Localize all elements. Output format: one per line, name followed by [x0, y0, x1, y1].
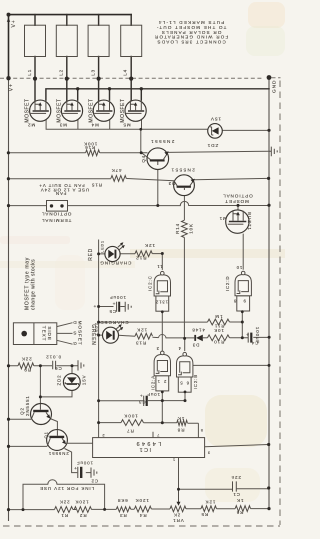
junction dot Q4 collector on fan line — [156, 204, 159, 207]
wire: M1 drain stub — [237, 206, 239, 212]
wire: IC2:C output drop — [161, 254, 163, 270]
dashed battery boundary line — [0, 77, 281, 79]
svg-text:LED1: LED1 — [101, 240, 105, 253]
svg-text:FAN TO SUIT V+: FAN TO SUIT V+ — [38, 183, 84, 188]
svg-text:+: + — [246, 332, 249, 337]
fan terminal block — [47, 201, 68, 212]
svg-text:V+: V+ — [11, 19, 17, 27]
transistor Q4 2N5551 — [141, 148, 168, 170]
svg-text:IC1: IC1 — [138, 446, 151, 452]
junction dot C3 line at LED feed — [97, 399, 100, 402]
junction dot IC2:A bottom — [161, 391, 164, 394]
resistor R16 100K — [86, 150, 100, 156]
svg-text:12K: 12K — [205, 500, 216, 505]
svg-text:+: + — [93, 303, 97, 308]
capacitor C3 10uF — [140, 393, 148, 406]
capacitor C4 100uF — [246, 332, 253, 342]
resistor R5 12K — [201, 506, 216, 512]
svg-text:MOSFET: MOSFET — [78, 321, 83, 346]
resistor R8 1K — [177, 420, 188, 425]
svg-text:SIDE: SIDE — [47, 326, 52, 341]
svg-text:M5: M5 — [123, 122, 131, 127]
wire: LED2 line to R13 — [99, 335, 159, 338]
wire: load L4 top stub — [130, 15, 132, 26]
wire: Q4 emitter line to rail ground — [168, 151, 269, 152]
svg-text:10: 10 — [236, 265, 242, 270]
svg-text:PUTS MARKED L1-L4: PUTS MARKED L1-L4 — [158, 20, 225, 25]
wire: LED panel vertical (RED/GREEN feed) — [98, 240, 100, 438]
wire: R7/R8 line — [99, 422, 199, 425]
junction dot IC2:B bottom — [184, 391, 187, 394]
svg-text:C2: C2 — [91, 478, 98, 483]
junction dot R15 at rail — [7, 177, 10, 180]
svg-text:ZD2: ZD2 — [56, 375, 61, 386]
svg-text:C5: C5 — [109, 309, 116, 314]
wire: IC2:B side pin to rail — [193, 364, 268, 366]
junction dot ZD1 line at rail — [267, 129, 270, 132]
svg-text:V+: V+ — [8, 83, 14, 91]
junction dot D3 line left — [183, 337, 186, 340]
wire: L2 to M3 drain — [66, 57, 68, 106]
svg-text:MOSFET: MOSFET — [88, 98, 94, 122]
wire: fan line left (rail to terminal) — [9, 205, 47, 207]
wire: IC1 right pin to rail — [205, 445, 269, 447]
capacitor C2 100uF — [74, 466, 83, 478]
svg-text:10uF: 10uF — [146, 392, 160, 397]
NAND gate IC2:A — [154, 351, 170, 391]
svg-text:C1: C1 — [232, 492, 239, 497]
junction dot R9 at rail — [7, 364, 10, 367]
resistor R7 100K — [121, 420, 143, 426]
resistor VR1 2K track — [170, 506, 186, 512]
svg-text:2: 2 — [101, 433, 104, 438]
svg-text:R6: R6 — [236, 510, 244, 515]
svg-text:R8: R8 — [177, 427, 185, 432]
wire: D3 to R10 — [203, 337, 208, 339]
svg-text:9: 9 — [243, 299, 246, 304]
dashed border bottom — [3, 525, 280, 527]
wire: top V+ bus — [9, 14, 132, 16]
junction dot M1 drain on fan line — [237, 204, 240, 207]
junction dot Q4 base — [140, 151, 143, 154]
diode D3 4148 — [194, 335, 203, 342]
capacitor C6 0.012 — [53, 361, 56, 370]
MOSFET M5 body — [125, 100, 146, 121]
wire: C3 line down to R7/R8 line — [161, 401, 163, 423]
junction dot LED1 anode — [97, 252, 100, 255]
wire: C4 to rail — [253, 336, 269, 338]
svg-text:R13: R13 — [135, 341, 146, 346]
svg-text:C6: C6 — [54, 366, 62, 371]
resistor R11 1M — [208, 319, 230, 325]
junction dot C5 tap — [97, 305, 100, 308]
junction dot VR1 wiper at C1 line — [177, 488, 180, 491]
svg-text:CHARGED: CHARGED — [99, 320, 128, 325]
junction dot C1 at rail — [267, 486, 270, 489]
wire: gate bus M2-M5 to ZD1 — [46, 114, 208, 130]
wire: R10 to C4 — [230, 337, 249, 339]
wire: load L3 top stub — [98, 15, 100, 26]
svg-text:CONNECT 3R5 LOADS: CONNECT 3R5 LOADS — [156, 39, 225, 44]
wire: M4 gate drop — [109, 114, 111, 130]
resistor R12 12K — [135, 251, 152, 257]
NAND gate IC2:D — [235, 271, 251, 311]
svg-text:Q2: Q2 — [19, 407, 24, 415]
wire: R8 corner into IC1 top — [197, 423, 199, 437]
wire: IC2:C to IC2:A output link — [161, 322, 163, 351]
svg-text:4148: 4148 — [192, 328, 205, 333]
wire: C2 to ground — [86, 472, 90, 474]
wire: Q1 base from rail — [9, 445, 48, 447]
VR1 2K wiper arrow — [178, 489, 180, 502]
wire: L3 to M4 drain — [98, 57, 100, 106]
NAND gate IC2:C — [154, 271, 170, 311]
load L2 box — [56, 25, 77, 56]
junction dot GND corner — [267, 75, 272, 80]
IC1 L4949 box — [93, 438, 205, 458]
svg-text:12K: 12K — [136, 328, 147, 333]
capacitor C1 22n — [233, 481, 237, 491]
svg-text:R11: R11 — [214, 323, 224, 328]
wire: M5 source stub — [140, 89, 142, 100]
svg-text:C3: C3 — [138, 399, 145, 404]
svg-text:12: 12 — [155, 300, 161, 305]
wire: Q3 emitter line to rail — [194, 178, 268, 179]
junction dot R16 at rail — [7, 151, 10, 154]
wire: M5 gate drop — [141, 114, 143, 130]
svg-text:TEXT: TEXT — [41, 326, 46, 342]
svg-text:M3: M3 — [59, 122, 67, 127]
svg-text:VR1: VR1 — [172, 518, 183, 523]
wire: C5 tap line — [99, 306, 114, 308]
junction dot M3 source on bus — [76, 87, 79, 90]
svg-text:MOSFET: MOSFET — [120, 98, 126, 122]
wire: bottom line V+ rail to GND rail — [9, 509, 270, 510]
junction dot M5 source on bus — [140, 87, 143, 90]
wire: 12V link bridge — [23, 480, 105, 510]
wire: load L1 top stub — [34, 15, 36, 26]
svg-text:0.012: 0.012 — [45, 354, 61, 359]
zener ZD2 15V — [63, 374, 80, 391]
svg-text:R16: R16 — [84, 145, 95, 150]
wire: M1 gate drop to IC2:D — [242, 234, 244, 270]
junction dot fan line at GND rail — [267, 204, 270, 207]
svg-text:+: + — [140, 393, 143, 398]
capacitor C5 100uF — [117, 302, 132, 312]
svg-text:2: 2 — [163, 379, 166, 384]
svg-text:2N5551: 2N5551 — [170, 168, 195, 173]
wire: R11 1M line — [99, 321, 243, 323]
wire: IC1 pin stub x153 — [152, 432, 154, 438]
svg-text:1K: 1K — [177, 416, 184, 421]
MOSFET M1 BUZ71 body — [226, 210, 249, 233]
svg-text:L2: L2 — [59, 69, 64, 76]
wire: IC2:C lower net to 1M line — [161, 312, 163, 322]
wire: M3 gate drop — [77, 114, 79, 130]
svg-text:Q4: Q4 — [141, 155, 146, 163]
wire: IC1 bottom pin to VR1 wiper — [178, 458, 180, 503]
svg-text:22K: 22K — [21, 357, 32, 362]
svg-text:R1: R1 — [61, 513, 69, 518]
wire: R9/C6 line from rail — [9, 365, 78, 367]
svg-text:1: 1 — [157, 379, 160, 384]
svg-text:Q3: Q3 — [168, 181, 176, 186]
svg-text:ZD1: ZD1 — [207, 143, 219, 148]
svg-text:L4949: L4949 — [134, 440, 161, 446]
wire: MOSFET source bus to GND rail — [46, 89, 269, 100]
svg-text:C4: C4 — [251, 341, 258, 346]
svg-text:11: 11 — [156, 264, 162, 269]
wire: right GND rail — [268, 78, 270, 509]
svg-text:R10: R10 — [213, 340, 224, 345]
svg-text:2N5551: 2N5551 — [48, 451, 69, 456]
svg-text:1: 1 — [172, 458, 175, 463]
junction dot V+ top corner — [7, 13, 11, 17]
svg-text:6K8: 6K8 — [117, 498, 128, 503]
svg-text:100uF: 100uF — [76, 461, 93, 466]
svg-text:R5: R5 — [201, 512, 209, 517]
wire: IC2:D output net vertical — [241, 312, 243, 338]
svg-text:IC2:A: IC2:A — [150, 375, 155, 390]
load L1 box — [25, 25, 46, 56]
wire: R16 line from V+ rail to Q4 base — [9, 152, 148, 154]
svg-text:RED: RED — [88, 248, 94, 261]
svg-text:M2: M2 — [27, 122, 35, 127]
junction dot R11 right — [241, 321, 244, 324]
junction dot Q3 emitter at rail — [267, 177, 270, 180]
resistor R2 120K — [74, 507, 91, 513]
V+ rail arrow tick — [7, 18, 10, 22]
scan tint: top right green patch — [246, 26, 285, 56]
wire: Q2 collector riser — [39, 366, 41, 404]
svg-text:TERMINAL: TERMINAL — [41, 218, 71, 223]
wire: R15 line from V+ rail to Q3 base — [9, 179, 175, 181]
svg-text:12K: 12K — [144, 243, 155, 248]
wire: L4 to M5 drain — [130, 57, 132, 106]
svg-text:100uF: 100uF — [109, 295, 126, 300]
svg-text:change with stocks: change with stocks — [31, 259, 37, 310]
resistor R13 12K — [135, 333, 153, 339]
ground symbol at GND rail — [269, 147, 277, 157]
svg-text:R3: R3 — [119, 513, 127, 518]
svg-text:L4: L4 — [123, 69, 128, 76]
junction dot L2 — [65, 77, 69, 81]
junction dot Q2 base at rail — [7, 418, 10, 421]
svg-text:OPTIONAL: OPTIONAL — [41, 212, 71, 217]
ground symbol right of C2 — [90, 468, 97, 478]
svg-text:L1: L1 — [27, 69, 32, 76]
svg-text:LINK FOR 12V USE: LINK FOR 12V USE — [39, 486, 94, 491]
svg-text:5: 5 — [200, 428, 203, 433]
resistor R14 10K (vertical) — [182, 220, 188, 237]
junction dot R7/R8 divider tap — [161, 421, 164, 424]
svg-text:4: 4 — [178, 346, 181, 351]
svg-text:G: G — [72, 341, 76, 346]
svg-text:22K: 22K — [59, 500, 70, 505]
transistor Q2 2N5551 — [31, 404, 52, 425]
svg-text:5: 5 — [179, 381, 182, 386]
svg-text:1K: 1K — [236, 498, 243, 503]
scan tint: top right peach patch — [248, 2, 285, 28]
svg-text:R2: R2 — [79, 513, 87, 518]
wire: Q1 emitter down to C2 — [65, 449, 78, 473]
svg-text:D3: D3 — [192, 343, 199, 348]
svg-text:10K: 10K — [188, 223, 193, 234]
junction dot LED2 anode — [97, 334, 100, 337]
wire: IC2:B output drop — [184, 339, 186, 352]
scan tint: beige band right — [130, 249, 285, 258]
junction dot M4 source on bus — [108, 87, 111, 90]
junction dot IC2:D inputs — [241, 310, 244, 313]
wire: Q2 emitter to Q1 collector — [49, 418, 58, 430]
junction dot IC1 right pin at rail — [267, 443, 270, 446]
svg-text:2N5551: 2N5551 — [25, 395, 30, 416]
svg-text:LED2: LED2 — [95, 322, 99, 335]
svg-text:IC2:D: IC2:D — [225, 276, 230, 292]
junction dot bottom line at GND rail — [267, 507, 270, 510]
wire: fan line terminal to rail with hop over Q3/R14 vertical — [68, 201, 270, 205]
svg-text:100K: 100K — [123, 414, 137, 419]
ground symbol right of C6 — [77, 360, 84, 370]
wire: Q2 base from rail — [9, 418, 32, 420]
svg-text:Q1: Q1 — [43, 431, 48, 438]
svg-text:120K: 120K — [135, 498, 149, 503]
junction dot IC2:A output at C3 line — [161, 399, 164, 402]
junction dot R12 to IC2:C — [161, 252, 164, 255]
wire: LED1 line to R12 to IC2:C — [99, 253, 163, 255]
wire: C3 line — [99, 400, 185, 402]
svg-text:M4: M4 — [91, 122, 99, 127]
wire: left V+ rail thick top — [8, 15, 10, 79]
svg-text:47K: 47K — [111, 168, 122, 173]
resistor R6 1K — [235, 506, 250, 512]
svg-text:CHARGING: CHARGING — [99, 261, 131, 266]
scan tint: pink smudge left — [0, 236, 70, 244]
svg-text:FOR WIND GENERATOR: FOR WIND GENERATOR — [154, 35, 229, 40]
junction dot Q2 collector riser top — [39, 364, 42, 367]
wire: gate bus drop to R16 line — [140, 129, 142, 152]
svg-text:MOSFET: MOSFET — [57, 98, 63, 122]
MOSFET M3 body — [61, 100, 82, 121]
wire: R14 bottom to D3 line — [183, 238, 185, 339]
junction dot L3 — [97, 77, 101, 81]
LED LED2 GREEN — [103, 324, 124, 343]
svg-text:8: 8 — [233, 299, 236, 304]
resistor R15 47K — [111, 176, 126, 182]
junction dot fan line at left rail — [7, 204, 10, 207]
svg-text:22n: 22n — [231, 475, 241, 480]
svg-text:13: 13 — [162, 300, 168, 305]
resistor R4 120K — [134, 506, 151, 512]
svg-text:120K: 120K — [75, 500, 89, 505]
svg-text:+: + — [112, 301, 116, 306]
junction dot ZD2 top — [71, 364, 74, 367]
svg-text:IC2:B: IC2:B — [193, 374, 198, 389]
svg-text:OPTIONAL: OPTIONAL — [222, 194, 252, 199]
junction dot L4 — [129, 77, 133, 81]
zener ZD1 15V — [208, 124, 223, 139]
svg-text:R14: R14 — [175, 223, 180, 234]
svg-text:7: 7 — [156, 433, 159, 438]
svg-text:R7: R7 — [126, 429, 134, 434]
wire: M4 source stub — [109, 89, 111, 100]
wire: L1 to M2 drain — [34, 57, 36, 106]
transistor Q1 2N5551 — [47, 430, 68, 451]
wire: C1 line — [179, 488, 269, 490]
svg-text:R4: R4 — [139, 513, 147, 518]
scan tint: beige band left — [0, 261, 135, 268]
LED LED1 RED — [105, 242, 125, 261]
svg-text:3: 3 — [156, 346, 159, 351]
junction dot V+ on battery dashed line — [6, 76, 10, 80]
junction dot IC2:B side pin at rail — [268, 364, 271, 367]
resistor R3 6K8 — [116, 507, 131, 512]
resistor R1 22K — [55, 507, 73, 513]
wire: load L2 top stub — [66, 15, 68, 26]
svg-text:L3: L3 — [91, 69, 96, 76]
wire: IC2:A output bottom drop — [161, 392, 163, 401]
svg-text:FAN: FAN — [55, 191, 66, 196]
svg-text:M1: M1 — [219, 216, 227, 221]
svg-text:GND: GND — [272, 80, 278, 93]
svg-text:1M: 1M — [214, 314, 222, 319]
svg-text:BUZ71: BUZ71 — [247, 212, 252, 231]
junction dot IC2:B output at C3 line — [184, 399, 187, 402]
junction dot R7/R8 at LED feed — [97, 421, 100, 424]
svg-text:R15: R15 — [91, 183, 102, 188]
wire: left rail lower — [8, 78, 10, 521]
junction dot R10/C4 line — [241, 336, 244, 339]
junction dot ZD2 bottom to Q2 collector — [39, 395, 42, 398]
transistor Q3 2N5551 — [174, 175, 195, 196]
wire: IC2:B output bottom drop — [184, 392, 186, 401]
svg-text:D: D — [72, 320, 76, 325]
wire: Q1 to IC1 left pin — [67, 442, 92, 444]
svg-text:2K: 2K — [173, 512, 180, 517]
junction dot 1M line at LED feed — [97, 321, 100, 324]
svg-text:MOSFET: MOSFET — [25, 98, 31, 122]
junction dot gate bus to R16 branch — [139, 128, 142, 131]
svg-text:15V: 15V — [210, 116, 221, 121]
MOSFET M4 body — [93, 100, 114, 121]
load L3 box — [88, 25, 109, 56]
dashed border right — [279, 81, 281, 526]
scan tint: bottom right yellow spots — [205, 395, 267, 447]
junction dot IC2:C inputs — [161, 310, 164, 313]
NAND gate IC2:B — [177, 352, 193, 392]
svg-text:2N5551: 2N5551 — [150, 139, 175, 144]
wire: R13/D3 line hop over IC2 output column — [159, 335, 195, 338]
MOSFET M2 body — [30, 100, 51, 121]
svg-text:3: 3 — [207, 451, 210, 456]
resistor R9 22K — [18, 363, 34, 369]
svg-text:R9: R9 — [23, 368, 31, 373]
wire: Q4 collector drop to fan line — [157, 162, 159, 206]
junction dot link left leg — [22, 508, 25, 511]
wire: ZD2 bottom lead to Q2 collector — [40, 390, 72, 397]
svg-text:10K: 10K — [213, 328, 224, 333]
svg-text:R12: R12 — [135, 255, 146, 260]
svg-text:OR SOLAR PANELS: OR SOLAR PANELS — [161, 30, 222, 35]
svg-text:6: 6 — [186, 381, 189, 386]
svg-text:S: S — [73, 330, 77, 335]
MOSFET package pinout diagram — [13, 323, 72, 345]
wire: M3 source stub — [77, 89, 79, 100]
junction dot L1 — [33, 77, 37, 81]
resistor R10 10K — [208, 335, 230, 341]
wire: ZD2 top lead — [71, 366, 73, 374]
wire: ZD1 right lead to rail — [222, 129, 269, 131]
